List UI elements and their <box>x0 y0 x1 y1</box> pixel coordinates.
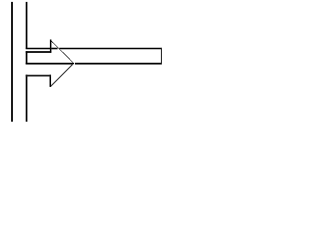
bus wire right, lower segment <box>26 75 28 122</box>
wire net B (middle horizontal), left run <box>26 63 73 65</box>
block arrow tail top edge <box>26 51 52 53</box>
wire net A (top horizontal), left run <box>26 48 50 50</box>
bus wire right, middle segment <box>26 51 28 64</box>
block arrow head lower diagonal <box>51 64 74 87</box>
block arrow head upper diagonal <box>51 40 74 64</box>
bus wire left <box>11 2 13 122</box>
block arrow head back edge, lower <box>49 75 51 87</box>
bus wire right, upper segment <box>26 2 28 49</box>
block arrow head back edge, upper <box>50 40 52 53</box>
wire end cap joining net A and net B <box>161 48 163 64</box>
block arrow tail bottom edge <box>26 75 51 77</box>
wire net A, right run <box>59 48 162 50</box>
wire net A, middle run <box>51 48 57 50</box>
wire net B, right run <box>75 63 162 65</box>
